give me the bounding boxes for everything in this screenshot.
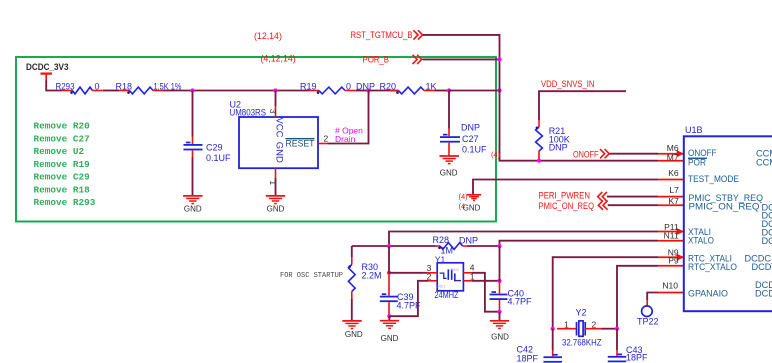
crystal Y1 24MHZ box bbox=[437, 263, 463, 291]
wire bus to C27 bbox=[448, 91, 450, 129]
svg-text:GND: GND bbox=[267, 205, 285, 214]
svg-text:R293: R293 bbox=[56, 82, 75, 92]
svg-text:K6: K6 bbox=[668, 168, 679, 178]
resistor R30 2.2M bbox=[351, 246, 353, 257]
wire GPANAIO N10 to TP22 bbox=[647, 293, 658, 301]
wire power to R293 bbox=[46, 81, 62, 91]
svg-text:Remove U2: Remove U2 bbox=[34, 146, 85, 157]
capacitor C40 4.7PF bbox=[499, 281, 501, 294]
svg-text:GND: GND bbox=[463, 203, 481, 212]
svg-text:Remove C29: Remove C29 bbox=[34, 172, 91, 183]
svg-text:VCC: VCC bbox=[274, 117, 285, 137]
svg-text:18PF: 18PF bbox=[626, 352, 648, 362]
svg-text:M7: M7 bbox=[667, 152, 679, 162]
U2 RESET pin name with overbar bbox=[286, 138, 315, 140]
wire XTALO vertical to C40 bbox=[499, 246, 501, 281]
svg-text:DCD: DCD bbox=[752, 262, 772, 272]
svg-text:Remove C27: Remove C27 bbox=[34, 133, 90, 144]
U1B pin M6 stub bbox=[658, 153, 684, 155]
svg-text:2: 2 bbox=[324, 133, 329, 143]
wire TEST_MODE K6 to gnd bbox=[473, 180, 658, 195]
U1B pin name POR with overbar bbox=[688, 157, 707, 159]
ground (C39) bbox=[380, 320, 399, 322]
svg-text:2: 2 bbox=[427, 271, 432, 281]
svg-text:0.1UF: 0.1UF bbox=[206, 153, 231, 163]
svg-text:(4): (4) bbox=[459, 192, 469, 201]
svg-text:GND2: GND2 bbox=[449, 268, 459, 272]
wire PERI_PWREN to L7 bbox=[607, 196, 658, 198]
node junction R21/POR wire bbox=[537, 159, 541, 163]
svg-text:Remove R293: Remove R293 bbox=[34, 197, 96, 208]
wire R293-R18 bbox=[103, 90, 119, 92]
Y1 pin3 stub bbox=[427, 272, 437, 274]
resistor R19 0 DNP bbox=[309, 90, 319, 92]
node junction Y2 pin2 bbox=[615, 327, 619, 331]
svg-text:24MHZ: 24MHZ bbox=[435, 290, 460, 300]
svg-text:RTC_XTALO: RTC_XTALO bbox=[688, 262, 737, 272]
U1B pin K6 stub bbox=[658, 179, 684, 181]
svg-text:PMIC_ON_REQ: PMIC_ON_REQ bbox=[539, 201, 595, 211]
wire C39 to gnd bbox=[388, 316, 390, 320]
ground (U2) bbox=[266, 195, 285, 197]
node junction C40/gnd bbox=[497, 310, 501, 314]
capacitor C43 18PF bbox=[616, 329, 618, 350]
node junction XTALO/Y1 pin1 bbox=[497, 279, 501, 283]
svg-text:R20: R20 bbox=[380, 82, 397, 92]
resistor R20 1K bbox=[369, 90, 399, 92]
svg-text:(4): (4) bbox=[491, 150, 501, 159]
svg-text:GND: GND bbox=[184, 205, 202, 214]
wire XTALI vertical to C39 bbox=[388, 246, 390, 273]
svg-text:Remove R18: Remove R18 bbox=[34, 184, 91, 195]
svg-text:1: 1 bbox=[564, 319, 569, 329]
wire U2 pin2 to open-drain node bbox=[328, 91, 369, 144]
svg-text:FOR OSC STARTUP: FOR OSC STARTUP bbox=[280, 272, 343, 280]
U1B pin N11 stub bbox=[658, 240, 684, 242]
svg-text:18PF: 18PF bbox=[517, 353, 539, 363]
U1B pin N9 stub bbox=[658, 256, 684, 258]
capacitor C42 18PF bbox=[552, 329, 554, 351]
wire Y1 pin3 bbox=[389, 272, 427, 274]
wire Y1 pin1 to XTALO vertical bbox=[472, 280, 500, 282]
U2 pin 3 VCC stub bbox=[275, 106, 277, 117]
svg-text:Y1: Y1 bbox=[435, 254, 446, 264]
svg-text:(12,14): (12,14) bbox=[254, 31, 282, 41]
node junction XTALI/R28 row bbox=[387, 244, 391, 248]
svg-text:(4,12,14): (4,12,14) bbox=[261, 54, 296, 64]
wire RTC_XTALO P9 bbox=[617, 266, 658, 329]
svg-text:0.1UF: 0.1UF bbox=[462, 145, 487, 155]
svg-text:3: 3 bbox=[268, 109, 277, 114]
svg-text:TP22: TP22 bbox=[637, 317, 659, 327]
svg-text:4.7PF: 4.7PF bbox=[508, 296, 533, 306]
svg-text:DNP: DNP bbox=[459, 236, 478, 246]
ground (TEST_MODE) bbox=[467, 194, 481, 196]
svg-text:DCDC_3V3: DCDC_3V3 bbox=[26, 62, 69, 72]
U2 pin 2 stub bbox=[318, 143, 328, 145]
U1B pin L7 stub bbox=[658, 196, 684, 198]
wire R18 to R19 (bus) bbox=[164, 90, 310, 92]
U1B pin M7 stub bbox=[658, 160, 684, 162]
resistor R18 1.5K 1% bbox=[119, 90, 130, 92]
U1B pin P11 stub bbox=[658, 231, 684, 233]
wire POR_B to vertical bbox=[423, 58, 500, 60]
svg-text:Drain: Drain bbox=[335, 134, 356, 144]
wire RST_TGTMCU_B down to POR pin bbox=[423, 35, 658, 161]
svg-text:GND: GND bbox=[274, 142, 285, 163]
node junction POR_B/RST bbox=[497, 57, 501, 61]
svg-text:GPANAIO: GPANAIO bbox=[688, 288, 728, 298]
wire VDD_SNVS_IN to R21 bbox=[539, 91, 626, 120]
capacitor C39 4.7PF bbox=[388, 273, 390, 296]
wire PMIC_ON_REQ to K7 bbox=[608, 204, 658, 206]
svg-text:2: 2 bbox=[592, 319, 597, 329]
wire R19-junction bbox=[356, 90, 369, 92]
svg-text:ONOFF: ONOFF bbox=[573, 149, 599, 159]
capacitor C27 0.1UF DNP bbox=[448, 129, 450, 137]
node junction XTALI/Y1 pin3 bbox=[387, 271, 391, 275]
ground (C27) bbox=[440, 155, 459, 157]
svg-text:PERI_PWREN: PERI_PWREN bbox=[539, 190, 591, 200]
node junction open-drain tap bbox=[366, 88, 370, 92]
svg-text:0: 0 bbox=[95, 82, 100, 92]
svg-text:ONOFF: ONOFF bbox=[688, 148, 717, 158]
wire R28 to XTALO vertical bbox=[468, 245, 500, 247]
resistor R21 100K DNP bbox=[538, 120, 540, 127]
U1B pin K7 stub bbox=[658, 204, 684, 206]
svg-text:TEST_MODE: TEST_MODE bbox=[688, 174, 739, 184]
node junction C39/Y1 pin2/gnd bbox=[387, 314, 391, 318]
svg-text:N11: N11 bbox=[664, 230, 679, 240]
node junction bus/POR vertical bbox=[497, 88, 501, 92]
wire C29 to gnd bbox=[192, 157, 194, 196]
svg-text:DNP: DNP bbox=[549, 142, 568, 152]
resistor R293 0 bbox=[62, 90, 73, 92]
svg-text:R28: R28 bbox=[433, 235, 450, 245]
svg-text:2.2M: 2.2M bbox=[362, 270, 382, 280]
ground (C29) bbox=[183, 195, 202, 197]
svg-text:GND: GND bbox=[440, 169, 458, 178]
svg-text:Y2: Y2 bbox=[576, 307, 587, 317]
node junction C27 tap bbox=[447, 88, 451, 92]
wire Y1 pin2 to gnd junction bbox=[389, 281, 428, 316]
svg-text:POR: POR bbox=[688, 158, 706, 168]
wire RTC_XTALI N9 bbox=[553, 257, 658, 329]
wire ONOFF to U1B M6 bbox=[610, 153, 659, 155]
svg-text:XTALO: XTALO bbox=[688, 235, 714, 245]
svg-text:U1B: U1B bbox=[685, 125, 703, 135]
svg-text:DNP: DNP bbox=[461, 123, 480, 133]
ground (R30) bbox=[342, 320, 361, 322]
svg-text:Remove R19: Remove R19 bbox=[34, 159, 91, 170]
ground (C40) bbox=[490, 320, 509, 322]
node junction Y2 pin1 bbox=[551, 327, 555, 331]
wire C27 junction to POR vertical bbox=[449, 90, 500, 92]
svg-text:L7: L7 bbox=[669, 185, 679, 195]
svg-text:K7: K7 bbox=[668, 196, 679, 206]
wire Y1 pin4 to gnd junction bbox=[472, 273, 500, 312]
wire XTALO N11 bbox=[500, 241, 659, 246]
svg-text:N10: N10 bbox=[662, 281, 678, 291]
Y1 pin1 stub bbox=[463, 280, 472, 282]
resistor R28 1M DNP bbox=[436, 245, 441, 247]
svg-text:Remove R20: Remove R20 bbox=[34, 121, 91, 132]
wire bus to U2 pin3 bbox=[275, 91, 277, 107]
svg-text:C27: C27 bbox=[462, 134, 479, 144]
wire U2 pin1 to gnd bbox=[275, 178, 277, 196]
svg-text:RST_TGTMCU_B: RST_TGTMCU_B bbox=[351, 30, 413, 40]
svg-text:1: 1 bbox=[470, 271, 475, 281]
U2 pin 1 stub bbox=[275, 168, 277, 178]
svg-text:32.768KHZ: 32.768KHZ bbox=[562, 338, 602, 348]
Y1 pin4 stub bbox=[463, 272, 472, 274]
op-amp/supervisor U2 UM803RS box bbox=[239, 117, 318, 168]
Y1 crystal glyph bbox=[440, 273, 447, 278]
U1B pin P9 stub bbox=[658, 265, 684, 267]
svg-text:UM803RS: UM803RS bbox=[230, 108, 267, 118]
svg-text:DCD: DCD bbox=[755, 288, 772, 298]
svg-text:R19: R19 bbox=[300, 82, 317, 92]
svg-text:RESET: RESET bbox=[286, 139, 315, 149]
wire bus to C29 bbox=[192, 91, 194, 137]
svg-text:POR_B: POR_B bbox=[363, 55, 390, 65]
svg-text:P9: P9 bbox=[668, 256, 679, 266]
svg-text:GND: GND bbox=[491, 333, 509, 342]
capacitor C29 0.1UF bbox=[192, 137, 194, 145]
svg-text:C29: C29 bbox=[206, 143, 223, 153]
remove-annotation box (green) bbox=[16, 57, 496, 222]
svg-text:R18: R18 bbox=[116, 82, 133, 92]
svg-text:VDD_SNVS_IN: VDD_SNVS_IN bbox=[541, 79, 595, 89]
wire XTALI P11 long bbox=[389, 232, 658, 247]
wire R20 to C27 junction bbox=[435, 90, 450, 92]
wire R30 to gnd bbox=[351, 299, 353, 321]
wire C40 to gnd bbox=[499, 312, 501, 321]
svg-text:GND: GND bbox=[381, 334, 399, 343]
svg-text:GND: GND bbox=[345, 330, 363, 339]
U1B pin N10 stub bbox=[658, 292, 684, 294]
node junction U2 VCC tap bbox=[273, 88, 277, 92]
svg-text:DC: DC bbox=[762, 236, 772, 246]
test point TP22 bbox=[646, 300, 648, 306]
svg-text:CCM: CCM bbox=[756, 158, 772, 168]
IC U1B box bbox=[684, 136, 772, 311]
node junction C29 tap bbox=[190, 88, 194, 92]
wire R30 top / R28 row bbox=[352, 245, 436, 247]
svg-text:GND1: GND1 bbox=[436, 284, 446, 288]
svg-text:PMIC_ON_REQ: PMIC_ON_REQ bbox=[689, 201, 760, 211]
node junction R28/XTALO bbox=[497, 244, 501, 248]
Y1 pin2 stub bbox=[428, 280, 437, 282]
